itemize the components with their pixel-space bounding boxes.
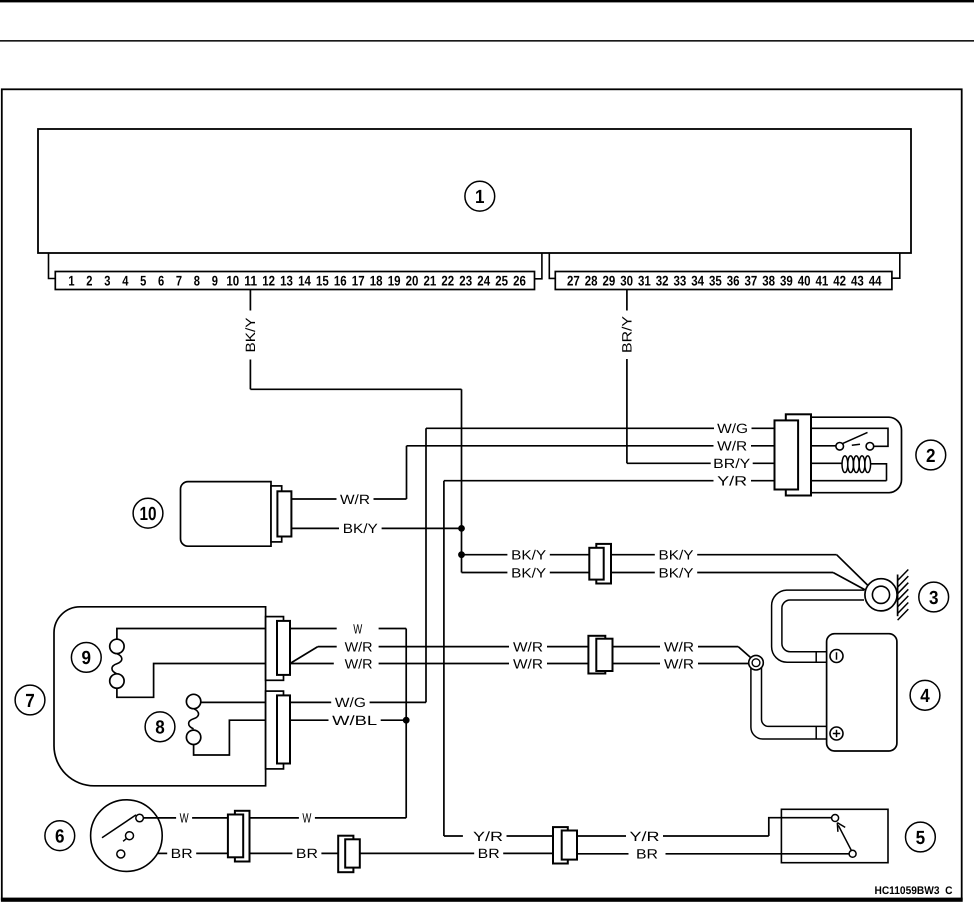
svg-text:BK/Y: BK/Y <box>511 548 546 563</box>
callout 1 <box>465 181 495 211</box>
svg-text:9: 9 <box>212 273 218 289</box>
svg-text:41: 41 <box>816 273 829 289</box>
ignition switch contact middle <box>126 832 134 840</box>
ECU-to-strip link left <box>49 253 56 279</box>
svg-text:BR: BR <box>636 847 658 862</box>
component 7 lower connector tab <box>266 691 284 769</box>
connector W/R pair <box>588 636 605 674</box>
ignition switch 6 body <box>91 800 163 872</box>
wire W/R to relay <box>407 445 714 447</box>
wire BK/Y lower to ground <box>611 572 655 574</box>
svg-text:BK/Y: BK/Y <box>343 521 378 536</box>
svg-text:4: 4 <box>122 273 128 289</box>
svg-text:W: W <box>353 621 362 636</box>
svg-text:4: 4 <box>920 686 930 707</box>
wire BK/Y horizontal run to node <box>250 388 461 390</box>
wire W/G to relay <box>426 427 714 429</box>
relay body 2 <box>809 417 902 493</box>
wire W/R from component 10 <box>291 498 336 500</box>
svg-text:BK/Y: BK/Y <box>659 548 694 563</box>
wire W/R pair upper run <box>290 647 318 664</box>
wire BK/Y from ECU pin 11 <box>249 290 251 311</box>
svg-text:22: 22 <box>441 273 454 289</box>
svg-text:W/R: W/R <box>513 639 543 654</box>
wire BR from ignition switch <box>158 852 168 854</box>
svg-text:15: 15 <box>316 273 329 289</box>
component 7 lower connector <box>277 695 290 763</box>
svg-text:BR/Y: BR/Y <box>713 456 750 471</box>
wire BK/Y vertical down to junctions <box>461 389 463 572</box>
svg-text:8: 8 <box>155 718 165 739</box>
svg-text:W/BL: W/BL <box>332 713 378 728</box>
callout 6 <box>45 821 75 851</box>
svg-text:HC11059BW3 C: HC11059BW3 C <box>875 885 953 897</box>
battery 4 body <box>827 634 897 751</box>
svg-text:6: 6 <box>55 827 65 848</box>
svg-text:W/R: W/R <box>664 656 694 671</box>
svg-text:W/R: W/R <box>513 656 543 671</box>
svg-text:27: 27 <box>567 273 580 289</box>
svg-text:32: 32 <box>656 273 669 289</box>
connector Y/R-BR pair <box>553 827 568 863</box>
ground wall line <box>897 575 899 617</box>
wire BR to switch 5 <box>577 853 629 855</box>
callout 10 <box>133 498 163 528</box>
svg-text:3: 3 <box>929 588 939 609</box>
svg-text:BR/Y: BR/Y <box>620 316 635 353</box>
svg-text:34: 34 <box>691 273 704 289</box>
svg-text:BR: BR <box>478 846 500 861</box>
wire BK/Y pair lower run <box>462 572 508 574</box>
svg-text:1: 1 <box>68 273 74 289</box>
wire BK/Y pair upper run <box>462 554 508 556</box>
svg-text:11: 11 <box>244 273 257 289</box>
svg-text:3: 3 <box>104 273 110 289</box>
wire Y/R vertical trunk <box>443 481 445 836</box>
relay switch contact left <box>836 443 844 451</box>
svg-text:W/G: W/G <box>335 695 366 710</box>
svg-text:W: W <box>180 811 189 826</box>
wire W/R pair lower run <box>290 663 334 665</box>
svg-text:12: 12 <box>262 273 275 289</box>
svg-text:36: 36 <box>727 273 740 289</box>
svg-text:7: 7 <box>25 691 35 712</box>
ECU connector strip pins 1-26 <box>55 272 534 290</box>
svg-text:10: 10 <box>140 504 157 525</box>
stator coil 9 <box>110 639 124 653</box>
relay internal wiring: switch side <box>811 428 888 446</box>
svg-text:40: 40 <box>798 273 811 289</box>
connector BK/Y pair <box>596 544 611 584</box>
wire BK/Y upper to ground <box>611 554 655 556</box>
svg-text:39: 39 <box>780 273 793 289</box>
callout 9 <box>71 643 101 673</box>
wire BK/Y from component 10 <box>291 527 339 529</box>
wire Y/R to switch 5 <box>577 835 626 837</box>
svg-text:1: 1 <box>475 187 485 208</box>
pickup coil 8 <box>186 694 200 708</box>
svg-text:Y/R: Y/R <box>630 829 660 844</box>
ECU connector strip pins 27-44 <box>555 272 892 290</box>
junction node BK/Y lower <box>459 552 465 558</box>
ignition switch contact top <box>136 814 144 822</box>
svg-text:28: 28 <box>585 273 598 289</box>
wire W/G vertical to relay <box>425 428 427 702</box>
svg-text:37: 37 <box>745 273 758 289</box>
wire W/G from coil 8 <box>201 701 331 703</box>
svg-text:2: 2 <box>86 273 92 289</box>
battery negative cable to frame ground <box>772 590 864 662</box>
svg-text:BR: BR <box>296 846 318 861</box>
relay coil L1 <box>842 456 848 473</box>
ECU-to-strip link mid-left <box>535 253 542 279</box>
battery positive cable <box>751 668 831 739</box>
svg-text:21: 21 <box>424 273 437 289</box>
junction node W/BL <box>403 717 409 723</box>
wire W/R lower to ring terminal <box>613 663 661 665</box>
ECU-to-strip link right <box>892 253 900 278</box>
switch 5 contact top <box>832 815 839 822</box>
svg-text:BK/Y: BK/Y <box>511 565 546 580</box>
connector BR single <box>338 836 353 873</box>
ignition switch lever <box>102 815 136 838</box>
svg-text:W/R: W/R <box>664 639 694 654</box>
svg-text:W/R: W/R <box>717 439 747 454</box>
component 7 outline (alternator cover) <box>54 607 266 786</box>
ground bolt ring 3 <box>865 579 897 611</box>
component 7 upper connector tab <box>266 617 284 681</box>
svg-text:26: 26 <box>513 273 526 289</box>
callout 3 <box>919 582 949 612</box>
ground hatching <box>898 570 909 581</box>
svg-text:Y/R: Y/R <box>717 474 747 489</box>
svg-text:29: 29 <box>603 273 616 289</box>
callout 7 <box>15 685 45 715</box>
component 7 upper connector <box>277 621 290 675</box>
callout 5 <box>906 822 936 852</box>
wire Y/R lower run <box>444 835 463 837</box>
svg-text:5: 5 <box>916 828 926 849</box>
svg-text:38: 38 <box>762 273 775 289</box>
relay coil side wiring <box>811 462 842 464</box>
callout 8 <box>145 712 175 742</box>
svg-text:33: 33 <box>674 273 687 289</box>
svg-text:16: 16 <box>334 273 347 289</box>
relay switch contact right <box>866 443 874 451</box>
svg-text:W/R: W/R <box>345 656 373 671</box>
svg-text:25: 25 <box>495 273 508 289</box>
wire BR/Y from ECU pin 30 <box>626 290 628 311</box>
svg-text:10: 10 <box>226 273 239 289</box>
connector W/BR pair <box>235 811 250 862</box>
relay connector (mating halves) <box>786 414 811 495</box>
svg-text:30: 30 <box>620 273 633 289</box>
switch 5 contact bottom <box>849 850 856 857</box>
component 10 connector <box>277 491 291 536</box>
svg-text:23: 23 <box>459 273 472 289</box>
callout 4 <box>910 680 940 710</box>
battery negative terminal <box>830 650 843 663</box>
svg-text:5: 5 <box>140 273 146 289</box>
component 10 connector tab <box>271 486 282 542</box>
svg-text:7: 7 <box>176 273 182 289</box>
svg-text:W/G: W/G <box>717 421 748 436</box>
svg-text:24: 24 <box>477 273 490 289</box>
wire W/BL from coil 8 <box>194 720 329 755</box>
svg-text:6: 6 <box>158 273 164 289</box>
wire Y/R to relay <box>444 480 714 482</box>
svg-text:9: 9 <box>82 648 92 669</box>
svg-text:17: 17 <box>352 273 365 289</box>
svg-text:BR: BR <box>171 846 193 861</box>
svg-text:8: 8 <box>194 273 200 289</box>
positive cable ferrule <box>815 726 817 739</box>
svg-text:43: 43 <box>851 273 864 289</box>
component 10 body <box>181 482 272 547</box>
wire W/R upper to ring terminal <box>613 646 661 648</box>
svg-text:2: 2 <box>926 446 936 467</box>
svg-text:20: 20 <box>406 273 419 289</box>
svg-text:BK/Y: BK/Y <box>243 318 258 353</box>
svg-text:Y/R: Y/R <box>473 829 503 844</box>
svg-text:W/R: W/R <box>340 492 370 507</box>
svg-text:BK/Y: BK/Y <box>659 565 694 580</box>
switch 5 arm with arrow <box>838 825 851 850</box>
wire BR/Y to relay <box>627 462 711 464</box>
svg-text:44: 44 <box>869 273 882 289</box>
junction node BK/Y upper <box>459 526 465 532</box>
relay switch mid dash <box>852 444 860 445</box>
wire W from ignition switch <box>143 817 176 819</box>
ring terminal at battery positive <box>749 655 764 670</box>
wire W vertical trunk <box>405 629 407 818</box>
callout 2 <box>916 440 946 470</box>
svg-text:42: 42 <box>833 273 846 289</box>
switch 5 box <box>781 809 888 862</box>
ignition switch contact bottom <box>117 850 125 858</box>
ECU-to-strip link mid-right <box>549 253 555 278</box>
svg-text:14: 14 <box>298 273 311 289</box>
svg-text:19: 19 <box>388 273 401 289</box>
svg-text:18: 18 <box>370 273 383 289</box>
svg-text:13: 13 <box>280 273 293 289</box>
relay switch arm <box>843 432 868 443</box>
svg-text:W/R: W/R <box>345 639 373 654</box>
svg-text:31: 31 <box>638 273 651 289</box>
ECU / control unit box U1 <box>38 129 911 253</box>
svg-text:W: W <box>302 811 311 826</box>
svg-text:35: 35 <box>709 273 722 289</box>
wire BR mid run <box>360 852 474 854</box>
wire W/R from coil 9 <box>117 664 290 698</box>
negative cable ferrule <box>815 652 817 663</box>
wire W from coil 9 <box>117 629 337 640</box>
battery positive terminal <box>830 727 843 740</box>
